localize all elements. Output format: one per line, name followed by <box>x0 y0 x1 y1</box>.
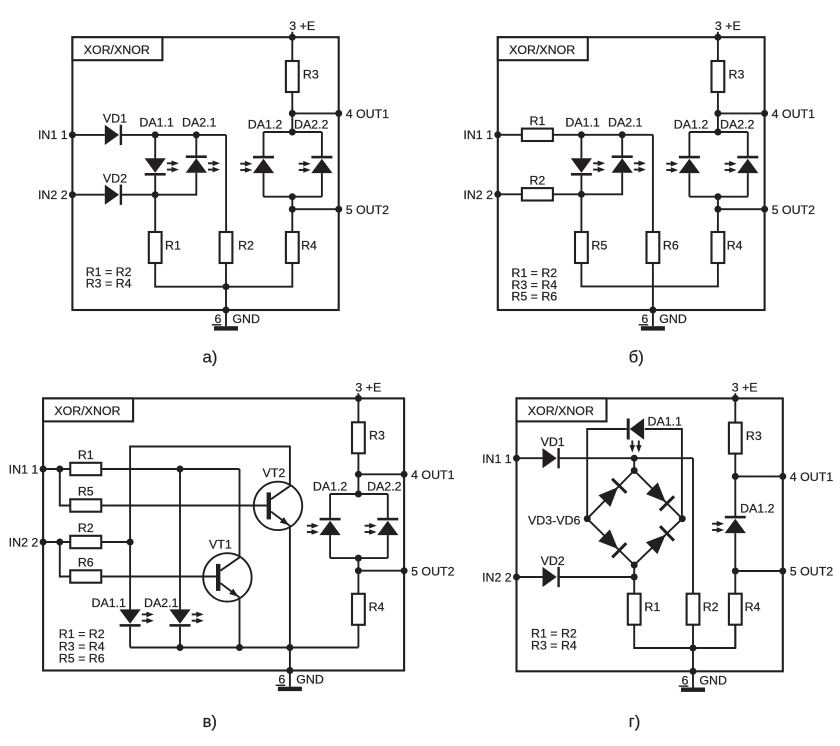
wire bridge top vertex <box>633 458 635 470</box>
svg-text:VT1: VT1 <box>209 537 232 551</box>
svg-text:DA2.2: DA2.2 <box>367 479 402 493</box>
wire DA1.2 branch bottom <box>688 173 690 197</box>
wire R1 to R6 branch <box>553 134 653 136</box>
wire R2 branch down <box>692 458 694 594</box>
XOR/XNOR label box <box>43 398 133 421</box>
circuit b: IC body box <box>498 37 765 310</box>
node top of photodiode pair <box>714 129 721 136</box>
wire DA1.1 cathode to R1 <box>154 176 156 232</box>
wire OUT2 to R4 <box>357 571 359 594</box>
diode VD2 <box>105 185 119 205</box>
pin 5 OUT2 <box>779 568 786 575</box>
svg-text:R6: R6 <box>663 238 679 252</box>
node IN2/DA1.1 <box>578 191 585 198</box>
svg-text:DA1.2: DA1.2 <box>674 118 709 132</box>
wire VT2 emitter down <box>289 526 291 648</box>
resistor R1 <box>70 463 101 475</box>
wire DA1.1 left leg <box>587 429 627 519</box>
diode VD1 <box>543 448 557 468</box>
wire to pin 4 <box>292 112 338 114</box>
node bottom of photodiode pair <box>355 555 362 562</box>
wire IN1 to R1 <box>498 134 522 136</box>
svg-text:DA2.2: DA2.2 <box>720 118 755 132</box>
resistor R3 <box>712 61 725 92</box>
svg-text:R6: R6 <box>78 556 94 570</box>
pin IN1 <box>40 466 47 473</box>
wire R4 to rail <box>653 263 718 286</box>
pin 4 OUT1 <box>761 110 768 117</box>
wire R5 to rail <box>581 263 653 286</box>
svg-text:3 +E: 3 +E <box>732 381 758 395</box>
resistor R2 <box>70 536 101 548</box>
wire OUT1 down <box>717 113 719 132</box>
wire to pin 4 <box>718 112 765 114</box>
svg-text:4 OUT1: 4 OUT1 <box>772 107 815 121</box>
wire VD2 to node <box>558 576 635 578</box>
wire VD1 to R2 branch <box>120 134 226 136</box>
svg-text:IN2 2: IN2 2 <box>38 188 68 202</box>
svg-text:б): б) <box>629 347 644 366</box>
wire DA2.1 vertical <box>179 469 181 609</box>
wire to OUT2 node <box>357 558 359 571</box>
wire OUT1 down <box>357 474 359 494</box>
pin 6 GND lead <box>289 671 291 687</box>
XOR/XNOR label box <box>517 398 607 421</box>
wire +E stem <box>734 393 736 422</box>
svg-text:DA1.1: DA1.1 <box>92 596 127 610</box>
ground <box>681 688 705 692</box>
node bridge left vertex <box>584 515 591 522</box>
bridge edge lower-left <box>587 519 634 565</box>
wire R6 branch down <box>652 135 654 232</box>
node IN2/R1 <box>631 574 638 581</box>
wire R2 to node <box>553 193 582 195</box>
wire IN2 to R2 <box>43 541 70 543</box>
svg-text:R3 = R4: R3 = R4 <box>531 639 577 653</box>
node OUT1 <box>289 110 296 117</box>
svg-text:R3: R3 <box>746 429 762 443</box>
wire DA2.2 branch bottom <box>387 535 389 558</box>
wire DA2.2 branch top <box>321 132 323 158</box>
wire VD2 to node <box>120 194 155 196</box>
wire to OUT2 node <box>717 197 719 210</box>
wire rail to pin 6 <box>692 648 694 671</box>
wire R3 to OUT1 node <box>734 454 736 477</box>
wire rail to pin 6 <box>289 648 291 671</box>
node top of photodiode pair <box>355 491 362 498</box>
resistor R3 <box>352 422 365 453</box>
svg-text:DA1.2: DA1.2 <box>740 502 775 516</box>
svg-text:DA1.2: DA1.2 <box>313 479 348 493</box>
wire DA2.1 to IN2 node <box>155 173 196 195</box>
wire DA1.2 branch top <box>263 132 265 158</box>
wire DA1.1 right leg <box>645 429 682 519</box>
svg-text:R4: R4 <box>745 600 761 614</box>
node R2/DA1.1 <box>127 539 134 546</box>
wire OUT1 down <box>291 113 293 132</box>
wire DA2.2 branch top <box>747 132 749 158</box>
node +E on border <box>732 395 739 402</box>
svg-text:3 +E: 3 +E <box>289 19 315 33</box>
XOR/XNOR label box <box>498 37 588 60</box>
wire +E stem <box>291 32 293 61</box>
svg-text:DA2.1: DA2.1 <box>608 115 643 129</box>
wire OUT2 to R4 <box>291 209 293 232</box>
wire DA2.2 branch top <box>387 494 389 520</box>
resistor R2 <box>522 188 553 200</box>
pin IN2 <box>69 191 76 198</box>
wire DA1.2 branch top <box>688 132 690 158</box>
pin 5 OUT2 <box>401 567 408 574</box>
wire IN2 down to R6 <box>60 542 71 577</box>
svg-text:3 +E: 3 +E <box>355 381 381 395</box>
resistor R1 <box>149 232 162 263</box>
svg-text:R3: R3 <box>729 67 745 81</box>
node OUT1 <box>355 471 362 478</box>
node OUT2 <box>714 206 721 213</box>
pin 4 OUT1 <box>335 110 342 117</box>
wire IN1 to VD1 <box>517 457 543 459</box>
optocoupler LED DA2.1 <box>186 158 207 172</box>
wire R2 to rail <box>692 625 694 648</box>
ground <box>641 326 665 330</box>
wire IN1 to R1 <box>43 468 70 470</box>
wire R6 to VT1 base <box>101 576 216 578</box>
node IN2 branch <box>56 539 63 546</box>
wire +E stem <box>717 32 719 61</box>
wire DA2.1 top lead <box>621 135 623 159</box>
node +E on border <box>289 34 296 41</box>
node top of photodiode pair <box>289 129 296 136</box>
node OUT1 <box>732 473 739 480</box>
node bridge top vertex <box>631 467 638 474</box>
wire R1 to VT1 collector branch <box>101 468 240 470</box>
svg-text:R5 = R6: R5 = R6 <box>59 652 105 666</box>
optocoupler LED DA1.1 <box>571 158 592 172</box>
node GND rail <box>286 644 293 651</box>
svg-text:VD2: VD2 <box>103 171 127 185</box>
wire to pin 4 <box>735 475 783 477</box>
svg-text:5 OUT2: 5 OUT2 <box>772 203 815 217</box>
pin 6 node on border <box>649 307 656 314</box>
svg-text:GND: GND <box>699 674 727 688</box>
wire DA1.2 branch top <box>329 494 331 520</box>
resistor R4 <box>286 232 299 263</box>
svg-text:R2: R2 <box>703 600 719 614</box>
svg-text:R1: R1 <box>78 448 94 462</box>
svg-text:5 OUT2: 5 OUT2 <box>346 203 389 217</box>
pin 5 OUT2 <box>761 206 768 213</box>
wire IN2 to R2 <box>498 193 522 195</box>
svg-text:DA1.1: DA1.1 <box>565 115 600 129</box>
bridge edge upper-right <box>634 471 682 519</box>
svg-text:GND: GND <box>659 312 687 326</box>
svg-text:GND: GND <box>296 673 324 687</box>
node bottom of photodiode pair <box>714 193 721 200</box>
resistor R4 <box>352 594 365 625</box>
pin IN1 <box>69 131 76 138</box>
wire to pin 5 <box>292 208 338 210</box>
node OUT1 <box>714 110 721 117</box>
photodiode DA1.2 <box>253 159 274 173</box>
photodiode DA2.2 <box>737 159 758 173</box>
optocoupler LED DA1.1 <box>145 158 166 172</box>
node DA2.1 rail <box>177 644 184 651</box>
node bridge bottom vertex <box>631 562 638 569</box>
pin 4 OUT1 <box>401 471 408 478</box>
bridge edge upper-left <box>587 471 634 519</box>
wire top bus of DA1.2/DA2.2 <box>330 493 388 495</box>
svg-text:XOR/XNOR: XOR/XNOR <box>528 404 594 418</box>
wire VT1 emitter down <box>239 598 241 648</box>
optocoupler LED DA2.1 <box>169 609 190 623</box>
svg-text:DA1.2: DA1.2 <box>248 118 283 132</box>
wire IN1 to R2 branch <box>634 457 693 459</box>
node IN1 branch <box>56 466 63 473</box>
pin 4 OUT1 <box>779 473 786 480</box>
wire R4 to rail <box>357 625 359 648</box>
wire R4 to ground rail <box>226 263 292 287</box>
optocoupler LED DA1.1 <box>120 609 141 623</box>
node OUT2 <box>289 206 296 213</box>
wire to pin 5 <box>735 570 783 572</box>
svg-text:DA2.2: DA2.2 <box>294 118 329 132</box>
node bridge top / IN1 <box>631 455 638 462</box>
wire DA1.1 anode <box>154 135 156 158</box>
pin 6 node on border <box>286 667 293 674</box>
photodiode DA1.2 <box>679 159 700 173</box>
wire R5 to VT2 base <box>101 505 267 507</box>
wire DA2.2 branch bottom <box>747 173 749 197</box>
svg-text:VD1: VD1 <box>103 112 127 126</box>
svg-text:R2: R2 <box>529 173 545 187</box>
resistor R4 <box>729 594 742 625</box>
resistor R2 <box>220 232 233 263</box>
pin 6 GND lead <box>225 310 227 326</box>
resistor R3 <box>729 423 742 454</box>
wire R3 to OUT1 node <box>717 92 719 113</box>
ground <box>278 687 302 691</box>
wire +E stem <box>357 393 359 422</box>
svg-text:4 OUT1: 4 OUT1 <box>346 107 389 121</box>
svg-text:GND: GND <box>232 312 260 326</box>
svg-text:3 +E: 3 +E <box>715 19 741 33</box>
diode VD3 <box>598 487 618 507</box>
diode VD2 <box>543 567 557 587</box>
svg-text:R3: R3 <box>369 429 385 443</box>
node DA1.1 top <box>578 131 585 138</box>
wire rail to pin 6 <box>225 287 227 310</box>
node +E on border <box>355 395 362 402</box>
pin IN1 <box>494 131 501 138</box>
wire IN2 to VD2 <box>517 576 543 578</box>
wire to OUT2 node <box>291 197 293 210</box>
wire VT1 collector up <box>239 469 241 557</box>
wire IN2 to VD2 <box>72 194 104 196</box>
pin IN2 <box>513 574 520 581</box>
wire DA1.1 cathode to R5 <box>580 176 582 232</box>
pin IN1 <box>513 455 520 462</box>
resistor R2 <box>687 594 700 625</box>
optocoupler LED DA2.1 <box>612 158 633 172</box>
photodiode DA1.2 <box>320 521 341 535</box>
svg-text:IN2 2: IN2 2 <box>9 535 39 549</box>
svg-text:г): г) <box>629 712 641 731</box>
resistor R5 <box>575 232 588 263</box>
node ground rail <box>223 283 230 290</box>
wire R4 to rail <box>693 625 735 648</box>
svg-text:IN1 1: IN1 1 <box>482 452 512 466</box>
wire R2 branch down <box>225 135 227 232</box>
svg-text:IN1 1: IN1 1 <box>38 128 68 142</box>
wire bottom bus of DA1.2/DA2.2 <box>689 196 747 198</box>
svg-text:R1: R1 <box>165 238 181 252</box>
pin 5 OUT2 <box>335 206 342 213</box>
svg-text:5 OUT2: 5 OUT2 <box>790 565 833 579</box>
wire IN1 to VD1 <box>72 134 104 136</box>
svg-text:IN1 1: IN1 1 <box>9 462 39 476</box>
svg-text:R2: R2 <box>78 521 94 535</box>
svg-text:XOR/XNOR: XOR/XNOR <box>54 404 120 418</box>
svg-text:R5: R5 <box>591 238 607 252</box>
ground <box>214 326 238 330</box>
photodiode DA2.2 <box>377 521 398 535</box>
wire VD1 to bridge top <box>558 457 635 459</box>
wire R2 to DA1.1 branch <box>101 541 130 543</box>
wire OUT2 to R4 <box>734 571 736 594</box>
svg-text:DA2.1: DA2.1 <box>182 115 217 129</box>
svg-text:4 OUT1: 4 OUT1 <box>790 470 833 484</box>
wire R3 to OUT1 node <box>357 453 359 474</box>
svg-text:4 OUT1: 4 OUT1 <box>411 468 454 482</box>
node IN2/DA1.1 <box>152 191 159 198</box>
wire DA1.1 vertical <box>129 542 131 609</box>
diode VD6 <box>646 535 666 555</box>
resistor R5 <box>70 499 101 511</box>
node GND rail <box>690 645 697 652</box>
diode VD4 <box>646 482 666 502</box>
wire R4 to rail <box>734 625 736 648</box>
svg-text:DA1.1: DA1.1 <box>648 415 683 429</box>
svg-text:DA1.1: DA1.1 <box>139 115 174 129</box>
diode VD5 <box>598 529 618 549</box>
pin 6 node on border <box>690 668 697 675</box>
transistor VT1 <box>203 553 251 601</box>
node DA2.1 top <box>193 131 200 138</box>
svg-text:IN2 2: IN2 2 <box>482 571 512 585</box>
svg-text:VT2: VT2 <box>263 466 286 480</box>
bridge edge lower-right <box>634 519 682 565</box>
svg-text:R1: R1 <box>529 114 545 128</box>
svg-text:5 OUT2: 5 OUT2 <box>411 564 454 578</box>
svg-text:IN2 2: IN2 2 <box>463 188 493 202</box>
wire bottom bus of DA1.2/DA2.2 <box>264 196 322 198</box>
svg-text:IN1 1: IN1 1 <box>463 128 493 142</box>
node DA2.1 top <box>619 131 626 138</box>
svg-text:в): в) <box>203 712 218 731</box>
wire DA1.2 branch bottom <box>329 535 331 558</box>
svg-text:XOR/XNOR: XOR/XNOR <box>509 43 575 57</box>
wire top bus of DA1.2/DA2.2 <box>264 131 322 133</box>
wire top bus of DA1.2/DA2.2 <box>689 131 747 133</box>
node DA2.1 top <box>177 466 184 473</box>
circuit a: IC body box <box>72 37 338 310</box>
wire to pin 5 <box>718 208 765 210</box>
wire DA2.1 to IN2 node <box>581 173 622 195</box>
pin IN2 <box>494 191 501 198</box>
pin 6 node on border <box>223 307 230 314</box>
svg-text:R3 = R4: R3 = R4 <box>86 277 132 291</box>
wire DA1.1 to rail <box>129 627 131 648</box>
photodiode DA1.2 <box>725 519 746 533</box>
pin 6 GND lead <box>652 310 654 326</box>
node bridge right vertex <box>679 515 686 522</box>
wire R1 to rail <box>634 625 693 648</box>
photodiode DA2.2 <box>311 159 332 173</box>
wire DA1.2 to OUT2 <box>734 533 736 571</box>
wire DA2.2 branch bottom <box>321 173 323 197</box>
wire bridge bottom to IN2 <box>633 565 635 577</box>
svg-text:R5: R5 <box>78 485 94 499</box>
resistor R6 <box>647 232 660 263</box>
svg-text:R3: R3 <box>303 67 319 81</box>
optocoupler LED DA1.1 <box>627 419 630 440</box>
diode VD1 <box>105 125 119 145</box>
svg-text:VD3-VD6: VD3-VD6 <box>528 514 580 528</box>
svg-text:XOR/XNOR: XOR/XNOR <box>84 43 150 57</box>
wire DA1.2 branch bottom <box>263 173 265 197</box>
svg-text:R1: R1 <box>644 600 660 614</box>
svg-text:VD1: VD1 <box>541 435 565 449</box>
transistor VT2 <box>254 482 302 530</box>
svg-text:а): а) <box>203 347 218 366</box>
wire OUT1 to DA1.2 <box>734 476 736 517</box>
circuit v: IC body box <box>43 398 404 670</box>
wire to pin 5 <box>358 570 404 572</box>
wire R3 to OUT1 node <box>291 92 293 113</box>
wire to pin 4 <box>358 473 404 475</box>
ground rail <box>130 647 358 649</box>
node OUT2 <box>732 568 739 575</box>
svg-text:R4: R4 <box>369 600 385 614</box>
svg-text:VD2: VD2 <box>541 554 565 568</box>
resistor R6 <box>70 570 101 582</box>
resistor R4 <box>712 232 725 263</box>
wire DA2.1 top lead <box>195 135 197 158</box>
wire VT2 collector bus <box>130 447 290 543</box>
wire IN1 down to R5 <box>60 469 71 506</box>
wire R6 to pin 6 <box>652 263 654 310</box>
svg-text:R5 = R6: R5 = R6 <box>511 289 557 303</box>
wire R2 to rail <box>225 263 227 287</box>
resistor R3 <box>286 61 299 92</box>
node DA1.1 top <box>152 131 159 138</box>
node OUT2 <box>355 567 362 574</box>
node VT1 emitter rail <box>236 644 243 651</box>
svg-text:R2: R2 <box>238 238 254 252</box>
circuit g: IC body box <box>517 398 783 671</box>
XOR/XNOR label box <box>72 37 162 60</box>
wire IN2 node to R1 <box>633 577 635 594</box>
svg-text:R4: R4 <box>301 238 317 252</box>
wire R1 to rail <box>155 263 226 287</box>
resistor R1 <box>628 594 641 625</box>
wire OUT2 to R4 <box>717 209 719 232</box>
wire DA1.1 anode <box>580 135 582 159</box>
pin IN2 <box>40 539 47 546</box>
svg-text:DA2.1: DA2.1 <box>144 596 179 610</box>
svg-text:R4: R4 <box>727 238 743 252</box>
